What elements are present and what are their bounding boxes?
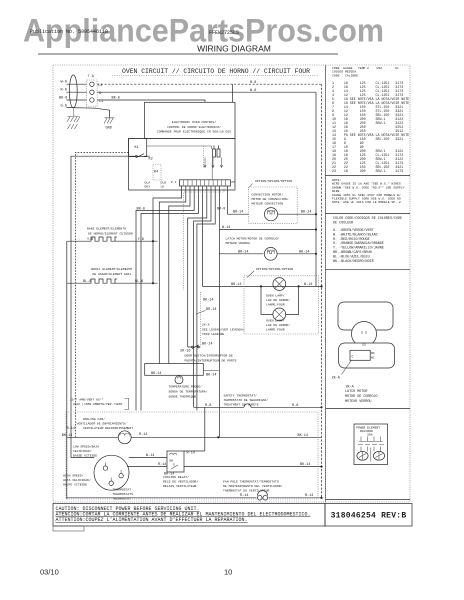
svg-text:W-6: W-6	[61, 80, 67, 84]
svg-text:LUZ DE HORNO/: LUZ DE HORNO/	[266, 298, 290, 302]
svg-text:N: N	[99, 92, 101, 96]
terminal block TB (7A fuse)	[87, 80, 97, 107]
svg-text:(MAX.)/AMB.AMBNTE/VER./VENT: (MAX.)/AMB.AMBNTE/VER./VENT	[73, 402, 123, 406]
connector centerline	[370, 448, 372, 462]
node lamp right	[298, 285, 300, 287]
right bus W (vertical)	[315, 92, 317, 286]
svg-text:NOTE: USE UL 1015 FOR LE MODEL: NOTE: USE UL 1015 FOR LE MODELE SP. 2	[332, 200, 401, 204]
svg-text:Publication No. 5995446118: Publication No. 5995446118	[30, 29, 108, 35]
fan motor M3 (two speed)	[94, 455, 129, 490]
latch motor M2	[264, 247, 277, 260]
node convection/W bus	[315, 213, 317, 215]
latch switch block	[350, 350, 370, 360]
svg-text:LOW SPEED/BAJA: LOW SPEED/BAJA	[73, 445, 99, 449]
wire gauge table rows	[332, 81, 409, 173]
svg-text:COOLING FAN/: COOLING FAN/	[83, 417, 105, 421]
svg-text:MOTOR DE CONVECCION/: MOTOR DE CONVECCION/	[252, 197, 289, 201]
svg-text:DKY: DKY	[145, 185, 151, 189]
svg-text:R-6: R-6	[61, 88, 67, 92]
divider under color code	[326, 268, 411, 270]
svg-text:BASSE VITESSE: BASSE VITESSE	[73, 454, 97, 458]
relay K1	[129, 138, 147, 156]
divider above connector	[326, 408, 411, 410]
wire BK-8 into EOC	[97, 100, 205, 102]
svg-text:23 18 200 SEW-1: 23 18 200 SEW-1 3173	[332, 169, 403, 173]
wire drop R-8 to EOC	[232, 84, 234, 102]
color code legend	[333, 216, 402, 264]
svg-text:LATCH MOTOR: LATCH MOTOR	[345, 390, 367, 394]
svg-text:VOIR LEGENDE: VOIR LEGENDE	[202, 332, 224, 336]
svg-text:BR-14: BR-14	[231, 283, 242, 287]
connector terminal right	[373, 451, 384, 460]
svg-text:BK-8: BK-8	[112, 97, 120, 101]
svg-text:PUERTA/INTERRUPTEUR DE PORTE: PUERTA/INTERRUPTEUR DE PORTE	[185, 359, 237, 363]
svg-text:O. -ORANGE/NARANJA/ORANGE: O. -ORANGE/NARANJA/ORANGE	[333, 241, 384, 246]
svg-text:BK.-BLACK/NEGRO/NOIR: BK.-BLACK/NEGRO/NOIR	[333, 259, 374, 264]
divider under table	[326, 175, 411, 177]
svg-text:NO: NO	[371, 351, 375, 355]
cable entry grommet	[69, 75, 77, 108]
svg-text:HAUTE VITESSE: HAUTE VITESSE	[63, 483, 87, 487]
svg-text:B-14: B-14	[305, 494, 313, 498]
relay feeder wire	[184, 407, 205, 451]
svg-text:THERMOSTATS: THERMOSTATS	[113, 492, 134, 496]
node bake/bus	[152, 240, 154, 242]
svg-text:W-14: W-14	[304, 283, 312, 287]
svg-text:03/10: 03/10	[40, 568, 59, 577]
svg-text:VENTILADOR DE ENFRIAMIENTO/: VENTILADOR DE ENFRIAMIENTO/	[77, 422, 127, 426]
wire W-6	[67, 83, 87, 85]
svg-text:HIGH SPEED/: HIGH SPEED/	[63, 474, 84, 478]
wire W-14 return	[219, 229, 316, 231]
svg-text:P-1: P-1	[171, 180, 177, 184]
title underline	[112, 75, 319, 77]
oven lamp 1	[261, 285, 299, 287]
svg-text:MOTEUR CONVECTION: MOTEUR CONVECTION	[252, 202, 284, 206]
svg-text:SAFETY THERMOSTAT/: SAFETY THERMOSTAT/	[224, 394, 258, 398]
svg-text:L2: L2	[98, 84, 102, 88]
svg-text:BK-14: BK-14	[202, 343, 213, 347]
svg-text:2K-A: 2K-A	[202, 323, 210, 327]
svg-text:2K-A: 2K-A	[332, 377, 341, 381]
svg-text:MOTOR DE CERROJO: MOTOR DE CERROJO	[345, 395, 378, 399]
node broil/bus	[152, 282, 154, 284]
svg-text:BK-14: BK-14	[298, 434, 309, 438]
safety thermostat S2	[194, 406, 322, 408]
fanout wires from connector strip	[153, 186, 182, 283]
svg-text:FFEW2725LS: FFEW2725LS	[209, 30, 239, 36]
wire G-6 to ground	[67, 108, 110, 118]
svg-text:BK-14: BK-14	[300, 463, 311, 467]
convection motor M1	[264, 208, 277, 221]
svg-text:OPTION/OPCION/OPTION: OPTION/OPCION/OPTION	[256, 267, 293, 271]
svg-text:R. -RED/ROJO/ROUGE: R. -RED/ROJO/ROUGE	[333, 237, 370, 242]
wire probe box right	[203, 370, 218, 372]
node lamp left	[260, 285, 262, 287]
svg-text:BR-14: BR-14	[206, 308, 217, 312]
temperature probe receptacle box	[145, 364, 204, 376]
dashed link wire	[184, 186, 225, 290]
terminal L2	[90, 82, 94, 86]
oven lamp 2 (parallel)	[261, 286, 299, 314]
svg-text:BK-6: BK-6	[59, 96, 67, 100]
svg-text:DE MANTENIMIENTO DEL VENTILADO: DE MANTENIMIENTO DEL VENTILADOR/	[223, 484, 283, 488]
svg-text:BK-14: BK-14	[203, 299, 214, 303]
op EOC box U1 (upper)	[145, 102, 236, 138]
svg-text:BK-14: BK-14	[299, 250, 310, 254]
svg-text:CONTROL DE HORNO ELECTRONICO/: CONTROL DE HORNO ELECTRONICO/	[167, 125, 221, 129]
svg-text:OVEN LAMP/: OVEN LAMP/	[266, 294, 285, 298]
svg-text:BL.-BLUE/AZUL/BLEU: BL.-BLUE/AZUL/BLEU	[333, 254, 370, 259]
svg-text:2K-A: 2K-A	[346, 386, 355, 390]
power connector box	[354, 424, 388, 465]
svg-text:25°" AMB/VENT 85°": 25°" AMB/VENT 85°"	[70, 397, 104, 401]
svg-text:R-14: R-14	[67, 427, 75, 431]
svg-text:BK-14: BK-14	[301, 211, 312, 215]
svg-text:FAN POLE THERMOSTAT/TERMOSTATO: FAN POLE THERMOSTAT/TERMOSTATO	[223, 480, 279, 484]
cooling section box	[66, 412, 318, 499]
svg-text:W-14: W-14	[146, 454, 154, 458]
wire motor left	[71, 457, 94, 459]
svg-text:ATTENTION:COUPEZ L'ALIMENTATIO: ATTENTION:COUPEZ L'ALIMENTATION AVANT D'…	[56, 517, 248, 523]
svg-text:W-8: W-8	[250, 89, 256, 93]
svg-text:R-8: R-8	[205, 404, 211, 408]
svg-text:NO: NO	[170, 459, 174, 463]
svg-text:LATCH MOTOR/MOTOR DE CERROJO/: LATCH MOTOR/MOTOR DE CERROJO/	[226, 237, 280, 241]
svg-text:7.A: 7.A	[88, 75, 95, 79]
svg-text:COLOR CODE/CODIGOS DE COLORES/: COLOR CODE/CODIGOS DE COLORES/CODE	[333, 216, 402, 221]
svg-text:BK-14: BK-14	[206, 374, 217, 378]
wire BK-6	[67, 99, 87, 101]
svg-text:RELAIS VENTILATEUR: RELAIS VENTILATEUR	[163, 484, 197, 488]
svg-text:R-14: R-14	[158, 463, 166, 467]
svg-text:NC: NC	[371, 355, 375, 359]
svg-text:C: C	[352, 356, 354, 360]
svg-text:R-14: R-14	[187, 452, 195, 456]
svg-text:ALTA VELOCIDAD/: ALTA VELOCIDAD/	[63, 478, 91, 482]
latch motor caption	[345, 386, 378, 405]
right column frame	[326, 65, 411, 502]
terminal N	[90, 90, 94, 94]
svg-text:R-8: R-8	[292, 404, 298, 408]
svg-text:LK: LK	[161, 185, 165, 189]
svg-text:P6: P6	[232, 180, 236, 184]
svg-text:SONDE THERMIQUE: SONDE THERMIQUE	[169, 394, 197, 398]
svg-text:TERMOSTATO DE SEGURIDAD/: TERMOSTATO DE SEGURIDAD/	[224, 398, 269, 402]
svg-text:TEMPERATURE PROBE/: TEMPERATURE PROBE/	[169, 384, 203, 388]
cooling relay K3	[167, 451, 184, 472]
right bus R (vertical)	[321, 84, 323, 499]
svg-text:K2: K2	[149, 158, 153, 162]
wire EOC left to left bus (dashed)	[75, 152, 128, 437]
temperature probe RT1	[175, 376, 183, 384]
svg-text:K4: K4	[154, 171, 158, 175]
svg-text:GND: GND	[106, 127, 112, 131]
svg-text:R-14: R-14	[240, 494, 248, 498]
wire relay to R bus	[184, 466, 322, 468]
wire to convection motor	[228, 186, 249, 214]
left bus for elements	[66, 241, 68, 499]
svg-text:BAKE ELEMENT/ELEMENTO: BAKE ELEMENT/ELEMENTO	[87, 227, 126, 231]
svg-text:SHOWN "SEE W.G. CODE "NO.5"" U: SHOWN "SEE W.G. CODE "NO.5"" USE SUPPLY	[332, 185, 405, 189]
test point arrows	[204, 158, 206, 168]
leader 2K-A	[342, 360, 352, 374]
svg-text:R-14: R-14	[139, 433, 147, 437]
svg-text:DE COULEUR: DE COULEUR	[333, 221, 353, 225]
wire R-6	[67, 91, 87, 93]
svg-text:COMMANDE POUR ELECTRONIQUE CR: COMMANDE POUR ELECTRONIQUE CR 500/10 055	[157, 130, 231, 134]
svg-text:VELOCIDAD/: VELOCIDAD/	[73, 449, 92, 453]
svg-text:MOTEUR VERROU: MOTEUR VERROU	[345, 400, 371, 404]
wire motor to relay	[129, 457, 167, 459]
node latch/W bus	[315, 253, 317, 255]
connector terminal left	[357, 451, 368, 460]
note block	[332, 178, 405, 204]
svg-text:MOTEUR VERROU: MOTEUR VERROU	[226, 241, 250, 245]
door switch S1	[188, 345, 201, 349]
divider under notes	[326, 213, 411, 215]
svg-text:318046254 REV:B: 318046254 REV:B	[331, 512, 407, 521]
svg-text:TREATMENT DE SURETE: TREATMENT DE SURETE	[224, 403, 259, 407]
header rule	[38, 53, 338, 55]
part number box	[325, 504, 412, 527]
svg-text:SEE LEGEND/VER LEYENDA/: SEE LEGEND/VER LEYENDA/	[202, 328, 245, 332]
fan pole thermostat S3	[257, 496, 262, 501]
svg-text:30A: 30A	[367, 433, 373, 437]
svg-text:OVEN CIRCUIT // CIRCUITO DE HO: OVEN CIRCUIT // CIRCUITO DE HORNO // CIR…	[122, 68, 310, 75]
oven circuit outer frame	[53, 65, 326, 502]
svg-text:CONVECTION MOTOR/: CONVECTION MOTOR/	[252, 193, 284, 197]
svg-text:BK-14: BK-14	[151, 372, 162, 376]
svg-text:SONDA DE TEMPERATURA/: SONDA DE TEMPERATURA/	[169, 389, 208, 393]
svg-text:LAMPE FOUR: LAMPE FOUR	[266, 328, 285, 332]
svg-text:LUZ DE HORNO/: LUZ DE HORNO/	[266, 323, 290, 327]
svg-text:DOOR SWITCH/INTERRUPTOR DE: DOOR SWITCH/INTERRUPTOR DE	[185, 354, 233, 358]
svg-text:DE ASADO/ELEMENT GRIL: DE ASADO/ELEMENT GRIL	[93, 272, 132, 276]
svg-text:BROIL ELEMENT/ELEMENTO: BROIL ELEMENT/ELEMENTO	[91, 267, 132, 271]
wire motor lower to relay	[127, 466, 167, 468]
svg-text:OPTION/OPCION/OPTION: OPTION/OPCION/OPTION	[255, 179, 292, 183]
connector pins upper	[359, 437, 383, 442]
broil element R2	[67, 279, 158, 283]
svg-text:THERMOSTAT: THERMOSTAT	[113, 488, 132, 492]
svg-text:W-14: W-14	[222, 226, 230, 230]
bake element R1	[67, 237, 158, 241]
connector pins lower	[361, 447, 381, 452]
wire W-8	[97, 91, 316, 93]
relay contact K4	[153, 165, 161, 181]
svg-text:VENTILATEUR REFROIDISSEMENT: VENTILATEUR REFROIDISSEMENT	[83, 426, 133, 430]
divider at column bottom	[326, 499, 411, 501]
latch assembly motor	[352, 322, 377, 347]
svg-text:R-8: R-8	[250, 81, 256, 85]
svg-text:L1: L1	[99, 100, 103, 104]
cooling fan winding L1	[67, 436, 322, 438]
svg-text:CODE CALIBRE: CODE CALIBRE	[332, 73, 358, 77]
node safety/R bus	[320, 406, 322, 408]
node lamps/R bus	[320, 285, 322, 287]
connector middle dashes	[358, 444, 384, 446]
relay contact K2	[129, 154, 150, 158]
component JE (resonator)	[213, 146, 221, 158]
column divider	[325, 65, 327, 502]
svg-text:K1: K1	[135, 146, 139, 150]
wire EOC left 2	[71, 156, 129, 457]
svg-text:LAMPE_FOUR: LAMPE_FOUR	[266, 303, 285, 307]
svg-text:10: 10	[224, 568, 232, 577]
svg-text:COOLING RELAY/: COOLING RELAY/	[163, 475, 189, 479]
svg-text:RELE DE VENTILADOR/: RELE DE VENTILADOR/	[163, 480, 198, 484]
op EOC box U1 (lower)	[129, 138, 235, 190]
ground GND	[104, 118, 114, 124]
terminal L1	[90, 98, 94, 102]
svg-text:BR-8: BR-8	[217, 208, 225, 212]
caution box	[53, 504, 325, 527]
node fan wire	[217, 436, 219, 438]
svg-text:DE HORNO/ELEMENT CUISSON: DE HORNO/ELEMENT CUISSON	[88, 231, 133, 235]
wire R-8 (top, to right bus)	[97, 83, 321, 85]
svg-text:BR.-BROWN/CAFE/BRUN: BR.-BROWN/CAFE/BRUN	[333, 250, 372, 255]
svg-text:BR-14: BR-14	[233, 211, 244, 215]
svg-text:BK-14: BK-14	[238, 250, 249, 254]
ground (chassis, left)	[67, 108, 80, 129]
svg-text:ELECTRONIC OVEN CONTROL/: ELECTRONIC OVEN CONTROL/	[172, 120, 217, 124]
small box under caution	[53, 526, 84, 531]
svg-text:WIRING DIAGRAM: WIRING DIAGRAM	[197, 44, 271, 54]
latch assembly housing	[338, 302, 393, 330]
bottom wire	[67, 497, 322, 499]
latch assembly switch body	[339, 343, 395, 368]
svg-text:THERMOSTAT: THERMOSTAT	[113, 497, 132, 501]
svg-text:Y. -YELLOW/AMARILLO/JAUNE: Y. -YELLOW/AMARILLO/JAUNE	[333, 246, 384, 251]
wire BK-14 to latch motor	[219, 253, 263, 255]
svg-text:G-6: G-6	[61, 104, 67, 108]
svg-text:W. -WHITE/BLANCO/BLANC: W. -WHITE/BLANCO/BLANC	[333, 232, 378, 237]
svg-text:G. -GREEN/VERDE/VERT: G. -GREEN/VERDE/VERT	[333, 228, 374, 233]
svg-text:OVEN LAMP/: OVEN LAMP/	[266, 319, 285, 323]
